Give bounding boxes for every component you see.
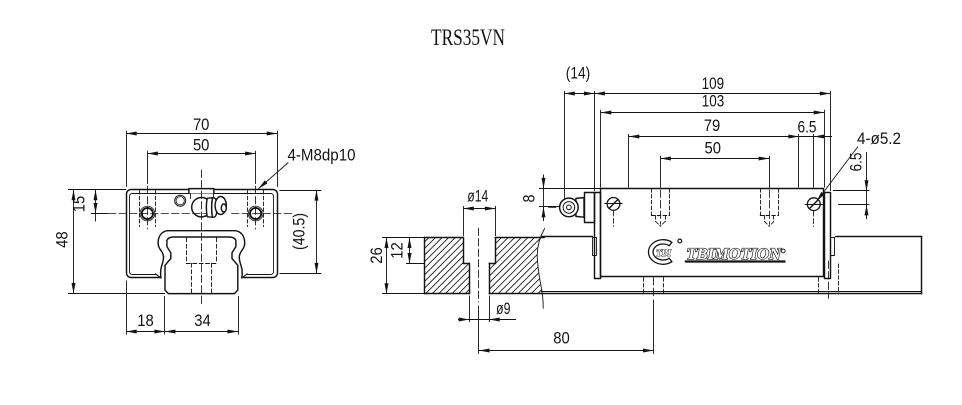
dim 40.5 extensions [280,190,322,192]
end cap screw left [607,198,620,211]
thread hidden lines left hole [140,190,264,226]
dim 70 line [126,133,277,135]
rail hole 2 hidden lines [644,278,664,294]
ext line 79 right [798,134,800,188]
rail hole 1 centerline [478,228,480,302]
grease nipple front [192,198,211,217]
dim 8 left: ext lines [539,188,601,190]
end cap screw right [807,198,820,211]
dim 34 line [165,331,238,333]
end seal tab right [831,238,835,256]
svg-text:TBI: TBI [656,248,672,258]
svg-text:8: 8 [520,195,539,203]
ext line 50 left [660,156,662,188]
dim 12 [406,263,424,265]
end cap left [595,193,601,279]
cutout profile [158,231,245,278]
svg-text:(14): (14) [566,64,591,83]
svg-text:48: 48 [53,231,72,248]
rail bottom chamfer line [541,291,921,293]
svg-text:6.5: 6.5 [847,153,866,172]
centerline vertical [201,170,203,307]
ext line nipple tip (14) [564,91,566,199]
svg-text:ø14: ø14 [467,187,488,206]
block outer body (front view) [127,190,278,278]
logo R mark right [781,249,785,253]
rail counterbore hidden lines (phi14) [186,238,216,293]
ext line block left end [594,91,596,191]
svg-text:4-ø5.2: 4-ø5.2 [857,129,901,148]
svg-text:15: 15 [70,196,89,213]
hatch lines [340,225,626,300]
svg-text:6.5: 6.5 [798,118,817,137]
ext line 79 left [628,134,630,188]
M8 thread cups hidden (right pair) [760,189,762,216]
rail end face profile [165,237,238,294]
dim 50 extension lines [147,151,149,184]
cutout chamfer left [155,274,161,278]
dim phi9 [469,296,471,323]
dim line 6.5 horizontal [799,136,832,138]
M8 thread cups hidden (left pair) [651,189,778,227]
dim phi14 [463,206,465,236]
end cap right [825,193,831,279]
dim 48 line [73,190,75,294]
rail elevation top edges [542,236,592,238]
hole centerline dashes [147,186,149,229]
cutout chamfer right [242,274,248,278]
ext line hole center 6.5 [813,134,815,188]
dim line 79 [629,136,799,138]
ext line body left end [600,110,602,188]
svg-text:26: 26 [367,247,386,264]
dim line 50 [660,158,769,160]
svg-text:109: 109 [702,74,725,93]
nipple centerline [549,207,560,209]
svg-text:4-M8dp10: 4-M8dp10 [288,146,356,165]
phi9 hole walls [469,263,471,294]
dim 15/48 top extension [68,189,126,191]
logo underline [685,260,786,262]
dim 26 [382,237,424,239]
dim texts side view [367,64,901,348]
rail cross-section outline [424,238,544,294]
nipple cylinder [576,198,584,218]
dim 18 line [126,331,165,333]
svg-text:103: 103 [702,92,725,111]
ext line block right end [830,91,832,191]
M8 hole right [250,208,261,219]
nipple boss lines [190,194,192,199]
svg-text:79: 79 [704,116,721,135]
leader 4-M8dp10 [258,163,288,189]
rail bottom edge right of section [543,293,922,295]
svg-text:TRS35VN: TRS35VN [431,25,505,50]
nipple tip circles [560,198,579,217]
rail right end edge [921,237,923,294]
svg-text:34: 34 [194,311,211,330]
svg-text:50: 50 [193,135,210,154]
top grease-nipple tab [189,189,214,194]
thread hidden lines right hole [247,190,249,226]
block rail cutout (white fill to open bottom) [155,231,247,279]
dim line 109 [594,93,830,95]
ext line 50 right [769,156,771,188]
ext line body right end [824,110,826,188]
M8 hole left [142,208,153,219]
dim 18/34 extensions [126,280,128,334]
rail hole hidden lines (phi9) [191,263,193,293]
dim line (14) [564,93,594,95]
TBIMOTION logo [648,239,785,264]
end seal tab left [593,238,597,256]
svg-text:70: 70 [193,115,210,134]
centerline horizontal through holes [109,213,207,215]
svg-text:12: 12 [388,242,407,259]
block inner chamfer line [130,194,274,275]
dim line 103 [601,112,824,114]
svg-text:(40.5): (40.5) [290,213,309,250]
block body side view [601,189,824,277]
svg-text:18: 18 [137,311,154,330]
svg-text:80: 80 [553,329,570,348]
grease nipple side: flange [585,193,595,223]
svg-text:50: 50 [705,139,722,158]
counterbore phi14 walls [463,238,465,264]
rail hole 3 hidden lines [819,264,839,294]
logo C ring [648,240,671,265]
dim 50 line [147,153,255,155]
logo R mark top [678,239,682,243]
dim 6.5 vertical right: ext lines [833,190,870,192]
dim 15 line [95,190,97,214]
dim 80 [479,350,654,352]
dim texts left view [53,115,356,330]
svg-text:ø9: ø9 [496,299,511,318]
dim 70 extension lines [126,131,128,187]
leader 4-phi5.2 [817,147,859,202]
small hole left of nipple [175,195,186,206]
break wavy line [537,229,544,309]
dim 40.5 line [316,190,318,273]
dim 48 bottom extension [68,293,165,295]
